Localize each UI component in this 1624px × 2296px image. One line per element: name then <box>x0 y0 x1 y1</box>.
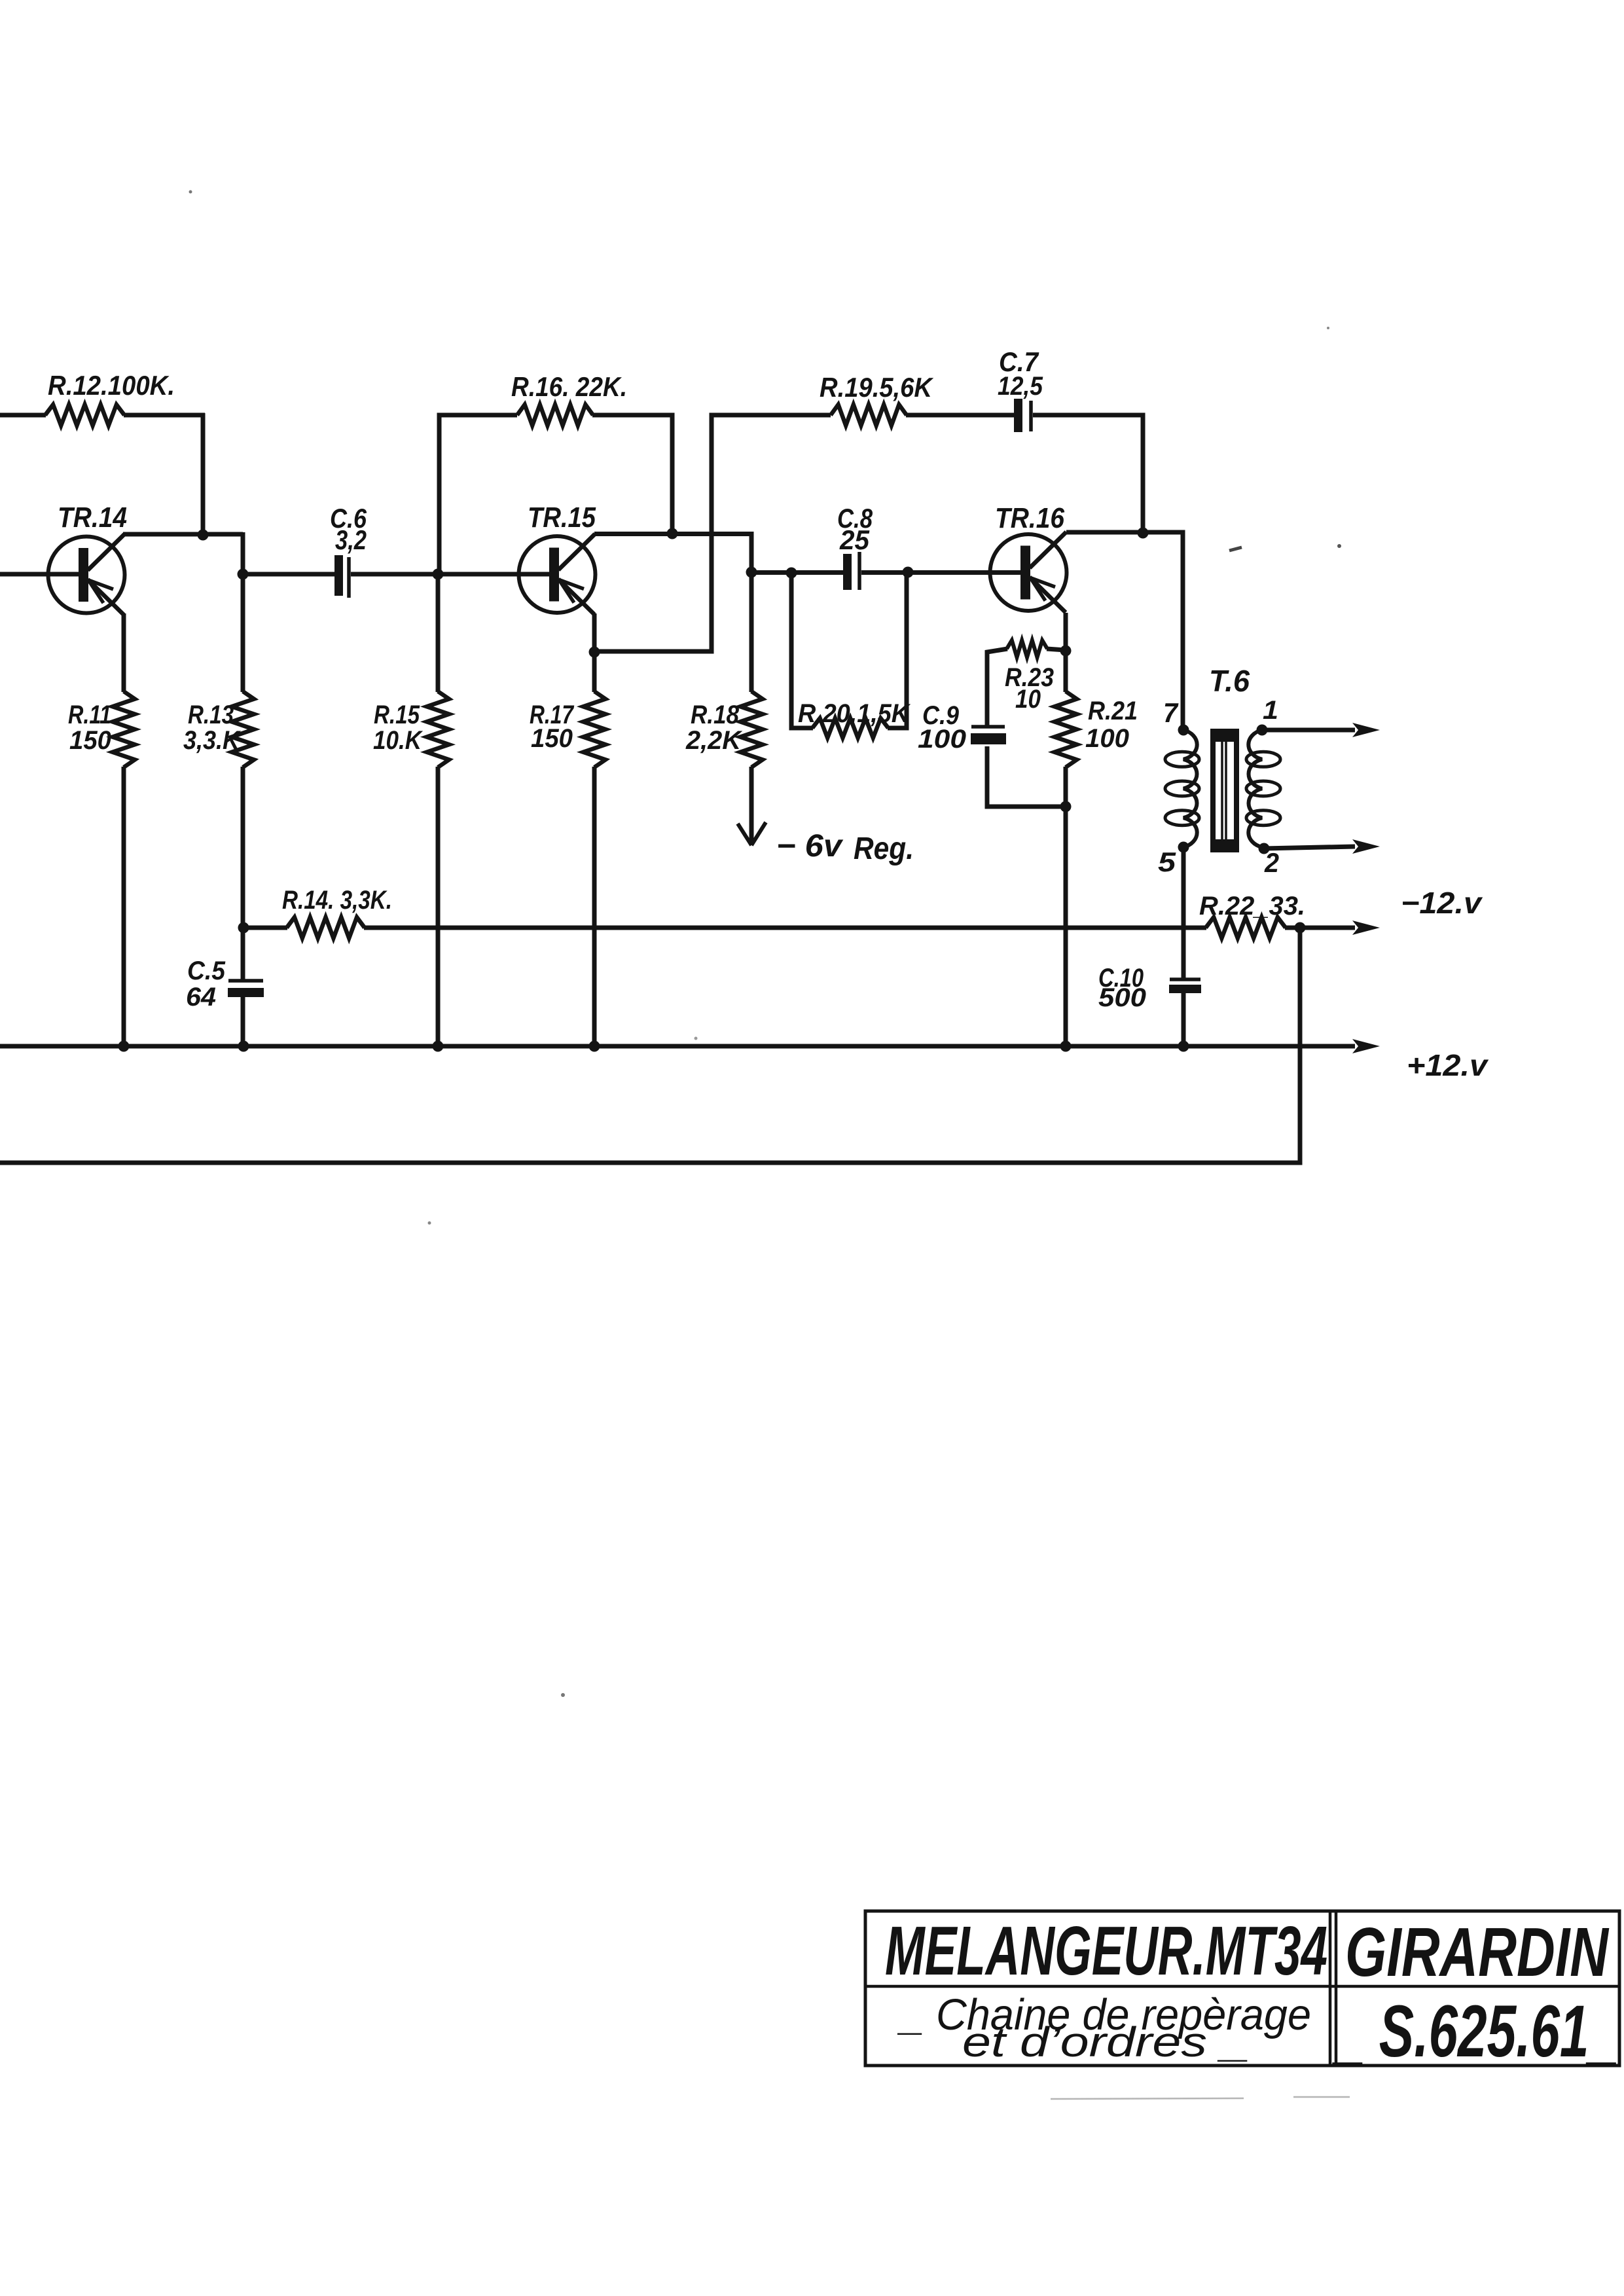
svg-text:+12.v: +12.v <box>1407 1048 1489 1082</box>
wire R19 to C7 <box>906 413 1015 418</box>
resistor R22 <box>1206 917 1286 938</box>
node +12v rail R17 <box>589 1041 600 1052</box>
wire R16 left branch up from base rail <box>439 415 517 574</box>
resistor R14 <box>287 917 365 938</box>
svg-text:Reg.: Reg. <box>854 831 914 866</box>
node transformer pin 2 <box>1259 843 1270 854</box>
node R20 right branch junction <box>903 567 914 578</box>
title block frame <box>865 1911 1619 2066</box>
transistor TR16 <box>990 532 1067 613</box>
svg-text:2: 2 <box>1264 847 1279 878</box>
wire top rail left segment to R12 <box>0 413 46 418</box>
wire R15 bottom to +12v rail <box>436 767 441 1046</box>
capacitor C6 <box>334 555 349 598</box>
svg-text:2,2K: 2,2K <box>685 726 743 755</box>
wire TR15 emitter vertical <box>592 613 597 692</box>
svg-text:100: 100 <box>1085 724 1129 753</box>
svg-text:10.K: 10.K <box>373 726 424 755</box>
wire R18 bottom lead to -6v arrow <box>749 767 754 843</box>
wire +12v rail <box>0 1044 1355 1049</box>
wire C5 top lead <box>241 928 245 981</box>
svg-text:R.12.100K.: R.12.100K. <box>48 370 175 401</box>
capacitor C10 <box>1169 979 1201 993</box>
node +12v rail C5 <box>238 1041 249 1052</box>
node R22 output junction <box>1295 922 1306 934</box>
wire vertical from R12 to TR14 collector node <box>201 413 206 535</box>
arrow -12v terminal <box>1352 920 1380 935</box>
svg-text:GIRARDIN: GIRARDIN <box>1345 1914 1610 1991</box>
svg-text:25: 25 <box>839 524 870 555</box>
node +12v rail R15 <box>433 1041 444 1052</box>
resistor R18 <box>740 691 763 767</box>
arrow +12v terminal <box>1352 1039 1380 1053</box>
arrow output 1 <box>1352 723 1380 737</box>
node base wire 2 left junction R18 top <box>746 567 757 578</box>
node TR15 emitter feedback junction <box>589 647 600 658</box>
svg-text:R.21: R.21 <box>1088 697 1138 725</box>
wire -12v rail left segment from R13 node to R14 <box>243 926 287 930</box>
node transformer pin 1 <box>1257 725 1268 736</box>
wire base rail to C6 <box>243 572 336 577</box>
svg-text:C.5: C.5 <box>187 957 226 985</box>
wire base wire 2 to C8 <box>751 570 844 575</box>
wire C6 to TR15 base <box>351 572 550 577</box>
title block horizontal divider <box>865 1985 1619 1988</box>
svg-text:R.22_33.: R.22_33. <box>1199 892 1305 920</box>
node +12v rail R11 <box>118 1041 130 1052</box>
wire C10 bottom to +12v rail <box>1182 993 1186 1046</box>
svg-text:12,5: 12,5 <box>998 372 1043 401</box>
capacitor C8 <box>843 552 859 590</box>
svg-text:10: 10 <box>1015 685 1041 714</box>
svg-text:−12.v: −12.v <box>1401 886 1483 920</box>
svg-text:− 6v: − 6v <box>776 829 843 864</box>
transistor TR14 <box>48 534 125 615</box>
transformer T6 secondary winding <box>1248 730 1262 847</box>
node base rail at R15 top <box>433 569 444 580</box>
resistor R16 <box>517 405 593 426</box>
svg-text:R.19.5,6K: R.19.5,6K <box>820 372 933 403</box>
svg-text:R.13: R.13 <box>188 701 234 729</box>
wire base rail left to TR14 base <box>0 572 80 577</box>
svg-text:TR.16: TR.16 <box>995 502 1064 534</box>
node +12v rail C10 <box>1178 1041 1189 1052</box>
transistor TR15 <box>519 534 596 615</box>
svg-text:150: 150 <box>531 724 573 753</box>
wire C8 to TR16 base <box>861 570 1022 575</box>
node TR16 collector junction <box>1138 528 1149 539</box>
resistor R12 <box>45 405 124 426</box>
wire R11 bottom to +12v rail <box>122 767 126 1046</box>
resistor R11 <box>113 691 135 767</box>
wire output pin 2 <box>1264 847 1355 848</box>
wire R12 right lead <box>124 413 205 418</box>
wire R17 bottom to +12v rail <box>592 767 597 1046</box>
transformer T6 core <box>1210 729 1239 852</box>
wire R20 left branch down from base wire <box>791 573 813 728</box>
wire R16 right lead and corner down <box>592 415 672 534</box>
svg-text:R.18: R.18 <box>691 701 740 729</box>
svg-text:R.15: R.15 <box>374 701 420 729</box>
node TR16 emitter R23 junction <box>1060 646 1072 657</box>
svg-text:et d’ordres _: et d’ordres _ <box>962 2018 1250 2066</box>
node +12v rail R21 <box>1060 1041 1072 1052</box>
resistor R15 <box>427 691 449 767</box>
wire R18 top lead <box>749 572 754 692</box>
capacitor C9 <box>971 727 1006 744</box>
svg-text:500: 500 <box>1098 983 1146 1012</box>
wire C9 bottom lead to emitter branch <box>987 746 1066 807</box>
node R20 left branch junction <box>786 568 797 579</box>
svg-text:R.11: R.11 <box>68 701 111 729</box>
svg-text:1: 1 <box>1263 696 1278 725</box>
svg-text:7: 7 <box>1163 697 1179 728</box>
node C9 R21 junction <box>1060 801 1072 812</box>
svg-text:T.6: T.6 <box>1209 664 1250 698</box>
capacitor C5 <box>228 981 264 997</box>
node collector TR15 junction <box>667 528 678 539</box>
wire C7 right lead and corner down to TR16 collector node <box>1033 415 1143 533</box>
arrow -6v Reg output <box>738 822 766 845</box>
wire C5 bottom to +12v rail <box>241 996 245 1046</box>
transformer T6 primary winding <box>1183 730 1197 847</box>
node transformer pin 7 <box>1178 725 1189 736</box>
wire TR16 collector rail and corner down to transformer pin 7 <box>1066 532 1183 730</box>
svg-text:150: 150 <box>69 726 111 755</box>
svg-text:R.16. 22K.: R.16. 22K. <box>511 371 627 402</box>
wire R15 top lead <box>436 574 441 692</box>
node base rail at R13 top <box>238 569 249 580</box>
svg-text:5: 5 <box>1158 847 1176 877</box>
svg-text:R.20.1,5K: R.20.1,5K <box>798 699 911 728</box>
title block vertical divider double line <box>1330 1911 1336 2066</box>
svg-text:64: 64 <box>186 983 216 1011</box>
capacitor C7 <box>1014 399 1031 432</box>
svg-text:100: 100 <box>918 725 966 754</box>
resistor R19 <box>831 405 907 426</box>
wire R19 left branch with feedback to TR15 emitter <box>594 415 831 651</box>
resistor R21 <box>1055 691 1077 767</box>
wire TR16 emitter vertical <box>1064 613 1068 692</box>
wire R13 top lead <box>241 574 245 692</box>
node transformer pin 5 <box>1178 842 1189 853</box>
wire TR14 collector rail <box>123 532 243 537</box>
resistor R20 <box>812 718 888 738</box>
svg-text:3,3.K: 3,3.K <box>183 726 242 755</box>
wire output pin 1 <box>1262 728 1355 733</box>
resistor R23 <box>1007 640 1047 657</box>
wire bottom return rail with right riser to R22 node <box>0 928 1300 1163</box>
wire R23 right lead <box>1047 649 1066 650</box>
wire R20 right branch up to base wire <box>888 572 907 728</box>
wire corner down to base rail node <box>241 532 245 574</box>
wire R21 bottom through C9 node to +12v rail <box>1064 767 1068 1046</box>
wire -12v rail long segment to R22 <box>364 926 1206 930</box>
node R13 C5 -12v rail junction <box>238 922 249 934</box>
wire R13 bottom to -12v node <box>241 767 245 928</box>
svg-text:TR.15: TR.15 <box>528 501 596 534</box>
arrow output 2 <box>1352 839 1380 854</box>
scan speck marks <box>189 191 1350 2100</box>
wire R23 left lead and C9 top lead <box>987 649 1007 727</box>
svg-text:MELANGEUR.MT34: MELANGEUR.MT34 <box>885 1912 1327 1990</box>
node collector TR14 junction <box>198 530 209 541</box>
svg-text:3,2: 3,2 <box>335 524 367 555</box>
wire transformer pin5 down to C10 <box>1182 847 1186 980</box>
resistor R13 <box>232 691 254 767</box>
wire TR14 emitter vertical <box>122 613 126 692</box>
wire TR15 collector rail and corner down <box>594 534 751 573</box>
svg-text:_ S.625.61_: _ S.625.61_ <box>1332 1990 1618 2072</box>
svg-text:TR.14: TR.14 <box>58 501 127 534</box>
svg-text:R.14. 3,3K.: R.14. 3,3K. <box>282 886 392 915</box>
wire R22 to -12v terminal <box>1285 926 1355 930</box>
resistor R17 <box>583 691 605 767</box>
